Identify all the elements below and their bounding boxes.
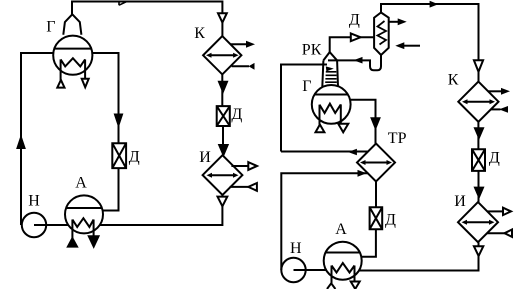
down arrow on D1-I1 wire (219, 145, 227, 155)
evaporator I2 air arrow lower (open, left) (487, 232, 505, 234)
dephlegmator water-out arrow (filled, right) (389, 21, 398, 23)
valve D4 (370, 207, 383, 229)
rectifier column RK body (322, 52, 338, 87)
generator G1 dome (63, 14, 81, 35)
svg-text:Г: Г (302, 78, 311, 95)
open triangle above condenser K1 (218, 13, 227, 22)
generator G2 heat-out triangle (open, down) (338, 124, 348, 133)
svg-text:РК: РК (302, 41, 322, 58)
svg-text:Д: Д (129, 148, 140, 165)
pump N2 (281, 258, 305, 282)
condenser K2 air-in arrow (filled, left) (491, 108, 501, 110)
open triangle below I2 (474, 246, 483, 256)
svg-text:А: А (75, 174, 87, 191)
evaporator I2 air arrow upper (open, right) (487, 210, 503, 212)
down arrow on D5-I2 wire (475, 188, 483, 197)
condenser K2 internal double arrow (465, 101, 492, 103)
rectifier column feed arrowhead (326, 66, 334, 71)
up arrow on left riser (18, 138, 25, 149)
open arrow on vapor line (351, 33, 361, 41)
svg-text:И: И (199, 149, 211, 166)
wire K1 to valve D1 (221, 74, 223, 106)
svg-text:Н: Н (28, 193, 40, 210)
absorber A1 chord (66, 207, 102, 209)
wire TR outlet to riser (281, 151, 368, 153)
generator G1 circle (53, 36, 92, 75)
filled right arrow on TR inlet (358, 170, 367, 177)
wire valve D1 to evaporator I1 (222, 126, 224, 156)
generator G1 heat-in triangle (open, up) (57, 80, 64, 88)
svg-text:Г: Г (46, 19, 55, 36)
svg-text:ТР: ТР (388, 130, 407, 147)
evaporator I2 diamond (458, 202, 498, 242)
absorber A2 water-out triangle (open, down, clipped) (351, 282, 360, 289)
absorber A1 circle (65, 195, 103, 233)
evaporator I1 air arrow upper (open, right) (231, 165, 248, 167)
down arrow on G1-D2 wire (115, 115, 122, 126)
wire reflux return dephlegmator to RK (328, 55, 381, 70)
svg-text:Д: Д (231, 106, 242, 123)
evaporator I1 internal double arrow (210, 174, 236, 176)
absorber A2 water-in triangle (open, up, clipped) (327, 283, 335, 289)
absorber A1 water-out triangle (filled, down) (89, 236, 99, 246)
generator G1 heating coil (61, 58, 86, 80)
condenser K1 diamond (203, 36, 241, 74)
generator G2 circle (312, 85, 351, 124)
valve D5 (472, 149, 485, 171)
wire I1 to absorber A1 (100, 195, 223, 225)
wire K2 to valve D5 (477, 122, 479, 150)
absorber A2 chord (326, 252, 360, 254)
open triangle below I1 (218, 197, 228, 207)
svg-text:Д: Д (349, 11, 360, 28)
svg-text:А: А (335, 221, 347, 238)
generator G2 heat-in triangle (open, up) (316, 125, 325, 133)
generator G2 coil (320, 104, 341, 125)
condenser K1 air-out arrow (filled, right) (230, 43, 247, 45)
wire pump riser to TR inlet (281, 173, 368, 270)
heat exchanger TR diamond (357, 144, 395, 182)
wire left riser A1-N1-G1 (21, 53, 53, 225)
wire valve D5 to evaporator I2 (478, 171, 480, 202)
filled arrow on reflux line (left) (354, 57, 363, 64)
svg-text:Н: Н (290, 240, 302, 257)
wire dephlegmator top to condenser K2 (381, 4, 479, 82)
generator G1 chord (54, 48, 91, 50)
svg-text:Д: Д (385, 212, 396, 229)
absorber A2 coil (332, 263, 355, 283)
generator G1 heat-out triangle (open, down) (82, 79, 89, 88)
wire valve D2 to absorber A1 (103, 168, 119, 210)
open triangle above condenser K2 (474, 60, 483, 72)
wire pump N2 to absorber A2 (294, 269, 327, 271)
svg-text:К: К (194, 25, 205, 42)
pump N1 (22, 213, 46, 237)
down arrow on K1-D1 wire (219, 82, 227, 92)
svg-text:И: И (454, 193, 466, 210)
condenser K1 internal double arrow (210, 54, 236, 56)
absorber A2 circle (324, 242, 362, 280)
evaporator I1 air arrow lower (open, left) (230, 186, 249, 188)
evaporator I1 diamond (203, 155, 243, 195)
down arrow on K2-D5 wire (475, 128, 483, 137)
wire G2 to TR (350, 100, 376, 144)
filled left arrow on TR outlet (348, 149, 357, 156)
svg-text:К: К (448, 72, 459, 89)
flow arrow on top wire (filled, right) (430, 1, 439, 8)
dephlegmator coil (378, 21, 387, 45)
rectifier column plates (325, 72, 337, 82)
dephlegmator water-in arrow (filled, left) (404, 45, 420, 47)
wire RK to dephlegmator (vapor) (330, 37, 374, 52)
TR internal double arrow (363, 162, 389, 164)
wire pump N1 to absorber A1 (34, 224, 68, 226)
condenser K1 air-in arrow (filled, left) (232, 65, 249, 67)
down arrow on G2-TR wire (372, 118, 380, 128)
condenser K2 diamond (458, 82, 498, 122)
wire TR to valve D4 (375, 182, 377, 208)
svg-text:Д: Д (489, 149, 500, 166)
generator G2 chord (315, 94, 348, 96)
absorber A1 water-in triangle (filled, up) (68, 238, 77, 246)
wire I2 to absorber A2 (359, 242, 479, 270)
valve D1 (217, 106, 230, 126)
flow arrow on top pipe (119, 1, 128, 5)
wire G1 to valve D2 (92, 53, 118, 143)
wire top pipe left diagram (72, 2, 222, 37)
wire valve D4 to absorber A2 (361, 229, 376, 257)
absorber A1 coil (72, 218, 93, 238)
condenser K2 air-out arrow (filled, right) (488, 90, 501, 92)
evaporator I2 internal double arrow (465, 221, 492, 223)
dephlegmator vessel (374, 13, 389, 56)
wire feed to RK (from TR via riser) (281, 65, 327, 152)
valve D2 (112, 143, 126, 168)
